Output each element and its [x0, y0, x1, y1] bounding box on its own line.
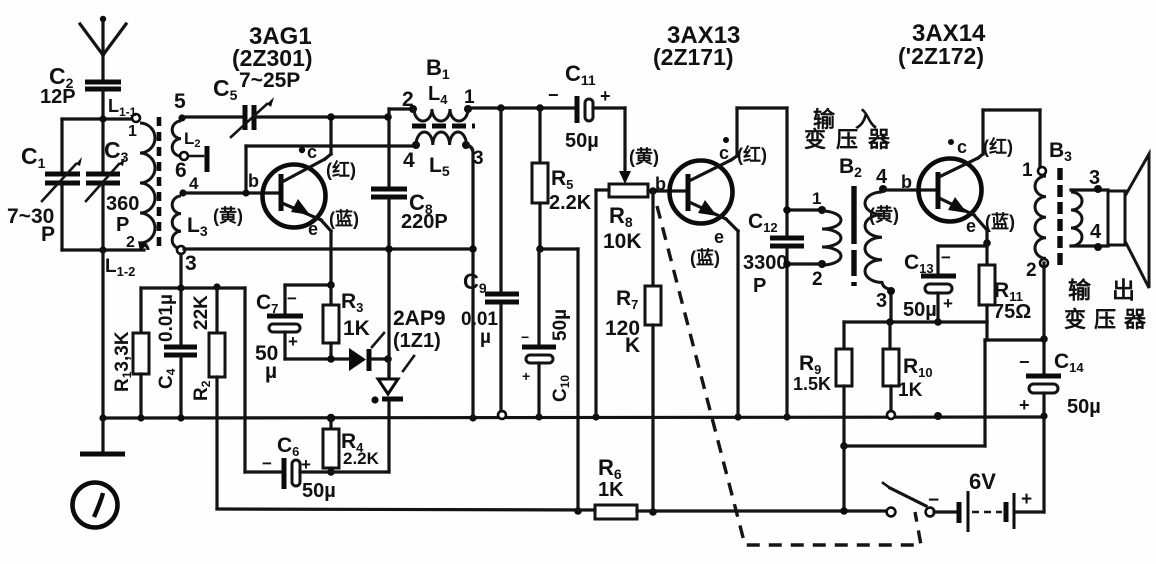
svg-text:7~25P: 7~25P: [239, 69, 300, 92]
resistor R1 3.3K: [112, 288, 149, 418]
wire B3-2 down: [1042, 263, 1045, 340]
svg-text:0.01µ: 0.01µ: [156, 294, 177, 342]
svg-text:(2Z301): (2Z301): [232, 45, 313, 71]
wire collector line up over to B1: [387, 109, 390, 186]
svg-text:4: 4: [876, 166, 888, 188]
svg-text:(蓝): (蓝): [985, 212, 1015, 232]
transformer core (dashed): [157, 117, 162, 250]
svg-text:出: 出: [1112, 277, 1135, 303]
svg-text:(黄): (黄): [869, 204, 899, 225]
svg-text:−: −: [262, 454, 272, 473]
svg-text:+: +: [1019, 395, 1030, 415]
svg-text:3: 3: [876, 290, 887, 312]
figure number circle 1: [73, 483, 118, 528]
top wire B1 to C11: [468, 106, 575, 109]
detector wire y=359: [285, 357, 350, 360]
wire T2 collector to B2: [737, 106, 787, 109]
svg-text:50µ: 50µ: [302, 480, 336, 502]
svg-text:+: +: [522, 368, 530, 384]
capacitor C10 50u: [521, 245, 572, 417]
svg-text:1K: 1K: [598, 479, 624, 501]
svg-text:(黄): (黄): [213, 205, 243, 226]
svg-text:−: −: [928, 490, 939, 511]
antenna coil L1-1 primary: [108, 96, 155, 251]
wire antenna to top node: [101, 91, 104, 173]
svg-text:1.5K: 1.5K: [793, 374, 831, 394]
svg-text:6: 6: [175, 159, 187, 182]
svg-text:(1Z1): (1Z1): [393, 330, 441, 352]
negative supply wire y=510: [217, 509, 595, 510]
resistor R5 2.2K: [532, 108, 592, 249]
B3 core: [1057, 168, 1062, 266]
svg-text:+: +: [301, 455, 311, 474]
feedback wire from L5-4 to base node: [246, 144, 414, 147]
svg-text:+: +: [288, 332, 298, 351]
bottom wire of tuning box: [62, 248, 144, 251]
potentiometer R8 10K: [596, 184, 688, 417]
switch S: [883, 483, 934, 516]
svg-text:−: −: [287, 289, 297, 308]
coil L4: [402, 83, 475, 121]
wire antenna line down to ground rail: [101, 250, 104, 419]
terminal 6 stub: [189, 155, 203, 158]
svg-text:220P: 220P: [401, 211, 448, 233]
svg-text:2: 2: [812, 269, 823, 290]
transistor T2 3AX13: [629, 108, 767, 417]
wire L5-3 down to rail: [466, 145, 473, 418]
B2 core: [851, 186, 856, 286]
svg-text:P: P: [753, 275, 766, 297]
capacitor C11 50u: [548, 61, 625, 152]
svg-text:(2Z171): (2Z171): [653, 44, 734, 70]
transformer B2 secondary: [865, 166, 895, 322]
ground symbol: [101, 418, 104, 452]
capacitor C9 0.01u: [461, 108, 519, 411]
svg-text:输: 输: [1068, 277, 1092, 303]
antenna: [80, 16, 126, 80]
svg-text:(红): (红): [983, 136, 1013, 157]
svg-text:b: b: [901, 172, 912, 192]
svg-text:22K: 22K: [191, 295, 212, 330]
svg-text:P: P: [116, 214, 129, 236]
svg-text:−: −: [941, 248, 951, 267]
svg-text:3: 3: [1089, 167, 1100, 189]
wire bias node down to C6: [243, 288, 246, 472]
svg-text:('2Z172): ('2Z172): [898, 43, 984, 69]
capacitor C3 variable: [86, 137, 139, 250]
svg-text:K: K: [625, 334, 640, 357]
svg-text:(红): (红): [737, 144, 767, 165]
svg-text:50µ: 50µ: [565, 130, 599, 152]
wire R5 node right and down x=578: [540, 247, 578, 250]
coil L5: [403, 132, 484, 179]
svg-text:变压器: 变压器: [804, 127, 900, 152]
junction dots top wires: [327, 113, 335, 121]
emitter node dot: [983, 239, 991, 247]
svg-text:c: c: [957, 137, 967, 157]
svg-text:2: 2: [126, 234, 135, 251]
dashed gang line R8 to switch: [657, 206, 921, 545]
wire T3 collector to B3-1: [983, 108, 1040, 111]
capacitor C2: [40, 63, 121, 108]
svg-text:(红): (红): [326, 159, 356, 180]
wire B2-4 to T3 base: [883, 188, 938, 191]
svg-text:1: 1: [812, 189, 821, 208]
resistor R6 1K: [574, 455, 657, 519]
long wire from L3-3 node to the right (y=249): [184, 247, 473, 250]
wire C11 down to R8 wiper: [623, 108, 626, 173]
svg-text:4: 4: [189, 174, 199, 193]
capacitor C14 50u: [1019, 340, 1101, 418]
coil L2: [172, 90, 200, 182]
capacitor C1 variable: [7, 119, 82, 250]
svg-text:2: 2: [1026, 260, 1037, 281]
svg-text:+: +: [600, 86, 611, 106]
battery 6V: [928, 469, 1032, 532]
svg-text:2.2K: 2.2K: [549, 192, 592, 214]
svg-text:12P: 12P: [40, 86, 76, 108]
coil L3: [172, 174, 208, 275]
B3 secondary: [1071, 167, 1108, 251]
bias node wire y=288: [141, 286, 245, 289]
ground rail: [103, 417, 1045, 418]
transistor T1 3AG1: [213, 116, 359, 285]
svg-text:1: 1: [1022, 160, 1033, 181]
B1 core (dashed): [412, 124, 475, 129]
resistor R7 120K: [605, 191, 661, 512]
node top wire: [62, 117, 138, 120]
svg-text:1: 1: [464, 87, 475, 108]
capacitor C6 50u: [245, 434, 389, 502]
svg-text:2AP9: 2AP9: [393, 307, 446, 330]
resistor R10 1K: [883, 322, 933, 411]
capacitor C12 3300P: [743, 210, 804, 417]
svg-text:1K: 1K: [343, 317, 370, 340]
resistor R4 2.2K: [323, 418, 380, 476]
svg-text:µ: µ: [480, 327, 491, 348]
diode D2 (vertical): [371, 379, 403, 404]
svg-text:e: e: [308, 219, 318, 239]
svg-text:3300: 3300: [743, 252, 788, 274]
svg-text:50µ: 50µ: [550, 309, 571, 341]
wire L3-3 down to bias node: [179, 254, 182, 288]
speaker: [1108, 154, 1149, 288]
svg-text:R13,3K: R13,3K: [112, 331, 134, 392]
capacitor C13 50u: [903, 246, 987, 322]
svg-text:2.2K: 2.2K: [343, 449, 380, 468]
wire battery riser: [1042, 417, 1045, 512]
svg-text:b: b: [248, 171, 259, 191]
resistor R2 22K: [191, 288, 225, 508]
svg-text:50µ: 50µ: [1067, 396, 1101, 418]
svg-text:5: 5: [174, 90, 186, 113]
svg-text:+: +: [1021, 489, 1032, 510]
capacitor C7 50u: [255, 285, 303, 383]
svg-text:1K: 1K: [898, 380, 923, 401]
B3 primary: [1022, 160, 1048, 281]
svg-text:3: 3: [185, 252, 197, 275]
svg-text:µ: µ: [265, 360, 277, 383]
svg-text:50µ: 50µ: [903, 299, 937, 321]
diode D1 2AP9: [349, 307, 446, 371]
transistor T3 3AX14: [869, 110, 1015, 243]
svg-text:4: 4: [403, 149, 415, 172]
capacitor C8 220P: [371, 189, 448, 378]
resistor R9 1.5K: [793, 322, 852, 515]
svg-text:e: e: [714, 227, 724, 247]
wire C7 top to emitter node: [285, 283, 331, 286]
svg-text:(蓝): (蓝): [690, 248, 720, 268]
node wire y=322: [844, 320, 987, 323]
svg-text:10K: 10K: [603, 230, 642, 253]
capacitor C5 variable: [182, 69, 387, 137]
svg-text:变压器: 变压器: [1064, 307, 1154, 332]
svg-text:c: c: [719, 143, 729, 163]
base wire T1: [184, 191, 279, 194]
svg-text:75Ω: 75Ω: [993, 301, 1031, 323]
svg-text:−: −: [548, 85, 559, 105]
svg-text:b: b: [655, 174, 666, 194]
capacitor C4 0.01u: [156, 288, 197, 418]
svg-text:e: e: [966, 216, 976, 236]
svg-text:6V: 6V: [969, 469, 996, 494]
svg-text:(蓝): (蓝): [329, 209, 359, 229]
svg-text:2: 2: [402, 88, 414, 111]
resistor R11 75ohm: [979, 243, 1031, 323]
svg-text:−: −: [1019, 352, 1030, 372]
svg-text:+: +: [943, 294, 953, 313]
resistor R3 1K: [323, 285, 370, 359]
wire y=446 negative feed: [844, 444, 985, 447]
svg-text:1: 1: [128, 123, 137, 140]
svg-text:−: −: [521, 329, 529, 345]
transformer B2 primary: [783, 189, 841, 290]
wire x=388 down to R4 bottom wire: [387, 359, 390, 378]
svg-text:P: P: [41, 223, 55, 246]
svg-text:360: 360: [106, 193, 139, 215]
wire R11 node down to C14 wire: [985, 322, 988, 340]
svg-text:4: 4: [1090, 221, 1102, 243]
svg-text:(黄): (黄): [629, 146, 659, 167]
